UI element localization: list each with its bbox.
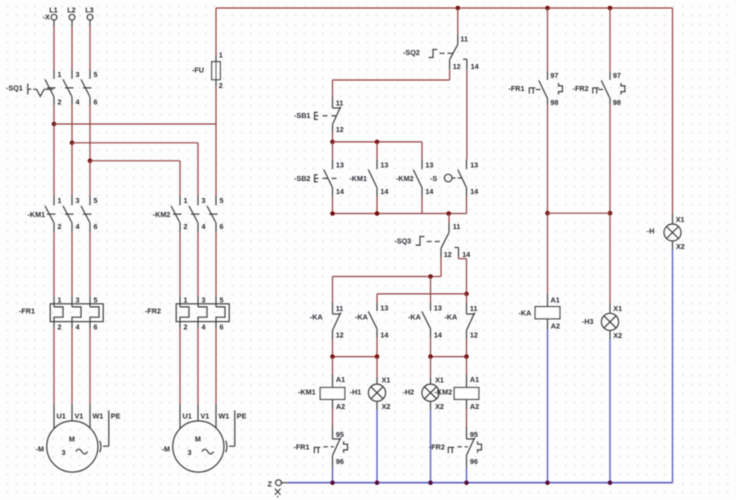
wire L1 down [53,20,55,26]
svg-text:98: 98 [613,98,621,107]
svg-text:A1: A1 [551,296,560,305]
svg-text:14: 14 [380,330,388,339]
node bus H2 branch [428,480,433,485]
node bus2 left [330,211,335,216]
svg-text:-SB1: -SB1 [294,111,310,120]
wire FR1-96 to bus [332,468,334,483]
wires KM2 to FR2 [179,232,181,297]
svg-text:2: 2 [58,222,62,231]
svg-text:X1: X1 [435,375,444,384]
svg-text:4: 4 [76,323,80,332]
node KA coil feed [545,211,550,216]
svg-text:A1: A1 [336,375,345,384]
svg-text:14: 14 [471,62,479,71]
node L1 junction [52,122,57,127]
top control bus [216,7,673,9]
terminal L3 [87,14,93,20]
svg-text:M: M [195,435,201,444]
svg-text:1: 1 [184,295,188,304]
svg-text:A2: A2 [470,402,479,411]
wire H to bus [672,250,674,483]
svg-text:-KM1: -KM1 [349,174,367,183]
wire H1 to bus [376,410,378,483]
wire L3 to KM2 pole1 [90,160,180,162]
svg-text:13: 13 [380,304,388,313]
svg-text:-SQ2: -SQ2 [403,48,420,57]
svg-text:L1: L1 [49,6,57,15]
svg-text:4: 4 [76,98,80,107]
terminal L2 [69,14,75,20]
svg-text:M: M [69,435,75,444]
node KM1 aux top [375,140,380,145]
node L2 junction [70,141,75,146]
svg-text:-FR2: -FR2 [429,443,445,452]
svg-text:Z: Z [268,479,273,488]
row bus below SB2 [333,213,467,215]
wires KM1 to FR1 [53,232,55,297]
svg-text:98: 98 [550,98,558,107]
svg-text:14: 14 [470,187,478,196]
svg-text:-M: -M [36,444,44,453]
svg-text:-KM1: -KM1 [298,388,316,397]
wire L2 SQ1 down [71,105,73,143]
svg-text:6: 6 [94,98,98,107]
wire SQ3-14 jog [458,257,460,259]
svg-text:14: 14 [462,250,470,259]
svg-text:A2: A2 [551,322,560,331]
wire L2 down [71,20,73,26]
svg-text:X2: X2 [435,402,444,411]
wire FR2-98 down [609,105,611,214]
svg-text:-FR1: -FR1 [294,443,310,452]
svg-text:1: 1 [184,196,188,205]
svg-text:-M: -M [162,444,170,453]
svg-text:-SB2: -SB2 [294,174,310,183]
node L3 junction [88,159,93,164]
wire L1 to fuse column [54,123,216,125]
svg-text:13: 13 [336,161,344,170]
wire SQ2-14 down to -S [466,70,468,160]
svg-text:14: 14 [380,187,388,196]
svg-text:X1: X1 [613,304,622,313]
svg-text:X1: X1 [676,215,685,224]
wire KA coil to bus [547,330,549,483]
svg-text:6: 6 [94,222,98,231]
svg-text:1: 1 [58,295,62,304]
svg-text:3: 3 [202,295,206,304]
svg-text:-FR1: -FR1 [19,307,35,316]
wire L3 down [89,20,91,26]
svg-text:3: 3 [76,70,80,79]
svg-text:3: 3 [76,196,80,205]
svg-text:1: 1 [58,70,62,79]
svg-text:12: 12 [336,125,344,134]
svg-text:13: 13 [380,161,388,170]
svg-text:12: 12 [453,62,461,71]
svg-text:1: 1 [58,196,62,205]
wire L2 to KM2 pole3 [72,142,198,144]
svg-text:6: 6 [220,323,224,332]
svg-text:5: 5 [94,70,98,79]
wire row bus to KM2 aux [333,141,423,143]
svg-text:-H3: -H3 [582,317,594,326]
wire FR1-98 down [547,105,549,214]
svg-text:W1: W1 [93,412,104,421]
node KA-d feed [464,292,469,297]
svg-text:11: 11 [460,35,468,44]
node top bus FR2 [608,6,613,11]
bus KA left pair [333,356,378,358]
wire SB1-12 to node [332,132,334,142]
svg-text:13: 13 [434,304,442,313]
svg-text:96: 96 [336,457,344,466]
svg-text:PE: PE [111,412,121,421]
wire KA-d feed to KA-b [377,293,467,295]
node bus KA branch [545,480,550,485]
svg-text:11: 11 [336,99,344,108]
svg-text:1: 1 [219,51,223,60]
svg-text:-H2: -H2 [403,388,415,397]
svg-text:-KM1: -KM1 [28,210,46,219]
wires FR1 to motor M1 [53,328,55,404]
svg-text:2: 2 [58,98,62,107]
node bus H1 branch [375,480,380,485]
svg-text:U1: U1 [183,412,192,421]
svg-text:5: 5 [94,295,98,304]
svg-text:-KM2: -KM2 [396,174,414,183]
svg-text:A1: A1 [470,375,479,384]
svg-text:V1: V1 [201,412,210,421]
svg-text:-H: -H [647,226,655,235]
wire SQ3-12 to KA row [440,258,442,277]
wire L1 junction to KM1 [53,124,55,196]
svg-text:-S: -S [430,174,437,183]
wire SQ2-12 to SB1 [449,70,451,80]
svg-text:2: 2 [58,323,62,332]
svg-text:-KA: -KA [310,312,323,321]
svg-text:3: 3 [76,295,80,304]
wire L3 SQ1 down [89,105,91,161]
neutral bus [288,482,673,484]
svg-text:-KM2: -KM2 [153,210,171,219]
node bus H3 branch [608,480,613,485]
svg-text:97: 97 [550,71,558,80]
node bus2 KM1aux [375,211,380,216]
svg-text:L3: L3 [85,6,93,15]
wire fuse column down to KM2 pole5 [215,87,217,196]
svg-text:X2: X2 [613,331,622,340]
svg-text:-FU: -FU [192,66,204,75]
svg-text:-SQ3: -SQ3 [394,237,411,246]
svg-text:95: 95 [336,430,344,439]
node H3 feed [608,211,613,216]
svg-text:4: 4 [76,222,80,231]
svg-text:6: 6 [94,323,98,332]
svg-text:W1: W1 [219,412,230,421]
wire joining 98s [548,212,611,214]
node top bus FR1 [545,6,550,11]
wire FR2-96 to bus [466,468,468,483]
svg-text:3: 3 [188,448,192,457]
svg-text:14: 14 [434,330,442,339]
svg-text:2: 2 [184,323,188,332]
svg-text:12: 12 [444,250,452,259]
svg-text:2: 2 [184,222,188,231]
svg-text:5: 5 [94,196,98,205]
svg-text:4: 4 [202,222,206,231]
svg-text:-KA: -KA [519,309,532,318]
svg-text:A2: A2 [336,402,345,411]
svg-text:-H1: -H1 [350,388,362,397]
svg-text:-X: -X [43,13,50,22]
svg-text:5: 5 [220,196,224,205]
wire L1 SQ1 to junction [53,105,55,124]
svg-text:3: 3 [202,196,206,205]
svg-text:-FR1: -FR1 [509,84,525,93]
svg-text:-SQ1: -SQ1 [6,84,23,93]
node top bus SQ2 [456,6,461,11]
svg-text:12: 12 [470,330,478,339]
svg-text:X1: X1 [382,375,391,384]
terminal -X L1 [51,14,57,20]
wire H2 to bus [430,410,432,483]
node bus KM1 branch [330,480,335,485]
wire H3 to bus [609,339,611,482]
marker below Z [275,489,281,495]
svg-text:14: 14 [336,187,344,196]
svg-text:13: 13 [425,161,433,170]
svg-text:PE: PE [237,412,247,421]
svg-text:-FR2: -FR2 [145,307,161,316]
svg-text:-KA: -KA [444,312,457,321]
node bus KM2 branch [464,480,469,485]
svg-text:11: 11 [336,304,344,313]
node bus2 SQ3 [446,211,451,216]
svg-text:-KM2: -KM2 [435,388,453,397]
svg-text:V1: V1 [75,412,84,421]
svg-text:-FR2: -FR2 [573,84,589,93]
svg-text:12: 12 [336,330,344,339]
svg-text:6: 6 [220,222,224,231]
svg-text:11: 11 [470,304,478,313]
svg-text:4: 4 [202,323,206,332]
svg-text:3: 3 [62,448,66,457]
svg-text:-KA: -KA [355,312,368,321]
svg-text:X2: X2 [676,242,685,251]
svg-text:5: 5 [220,295,224,304]
node SB1 bottom [330,140,335,145]
svg-text:13: 13 [470,161,478,170]
svg-text:X2: X2 [382,402,391,411]
bus KA right pair [431,356,467,358]
svg-text:97: 97 [613,71,621,80]
svg-text:L2: L2 [67,6,75,15]
svg-text:2: 2 [219,81,223,90]
svg-text:96: 96 [470,457,478,466]
svg-text:11: 11 [453,222,461,231]
node KA-c top [428,274,433,279]
svg-text:U1: U1 [57,412,66,421]
svg-text:95: 95 [470,430,478,439]
svg-text:-KA: -KA [408,312,421,321]
svg-text:14: 14 [425,187,433,196]
wires FR2 to motor M2 [179,328,181,404]
